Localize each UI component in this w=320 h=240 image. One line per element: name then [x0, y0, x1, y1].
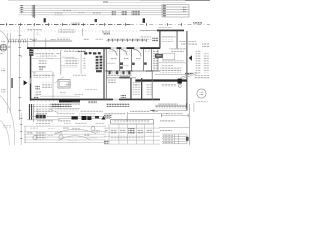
mid-bottom bold text [104, 115, 112, 118]
bottom-left small text [3, 125, 11, 127]
bottom-left vertical dim ticks [20, 118, 22, 139]
left table line r2 [24, 130, 106, 133]
horizontal line y116.2 [30, 115, 110, 118]
room faint marks rm1 [36, 56, 45, 58]
scatter text bottom mid2 [85, 133, 91, 136]
schedule row2 smudges [111, 137, 144, 140]
entrance text below wall dark [51, 103, 72, 107]
east list column 1 [196, 50, 201, 74]
partition vertical x60.7 [60, 50, 63, 75]
se arrow left end [150, 110, 154, 112]
dimension text T3b [62, 9, 71, 12]
se tick text [155, 111, 158, 113]
text rows left of dark box [140, 36, 151, 38]
partition horizontal y57 [62, 56, 75, 59]
stair hatch white slits [29, 51, 33, 54]
notes text row mid c [57, 112, 75, 114]
right wing label rows 4 [171, 51, 184, 53]
site text above building mid [58, 29, 75, 33]
sheet border top dark segment [185, 0, 210, 2]
bottom wall hatch ticks [31, 101, 58, 103]
dimension text cluster T2 dark stack [32, 5, 36, 18]
wall vertical x157.8 [157, 50, 160, 70]
grid connector vertical x45.8 [45, 38, 48, 48]
left vertical dimension line L1 [7, 33, 10, 113]
tree symbol scribble [1, 45, 7, 51]
road label text on boundary [71, 23, 79, 25]
horizontal line y118.3 [58, 117, 110, 120]
schedule vline v1 [108, 124, 111, 144]
right equipment dark box [155, 54, 163, 58]
dimension text T7 [121, 11, 127, 16]
WC room texts 3 [136, 58, 141, 60]
compass arc inner [58, 136, 90, 141]
dimension text T5 [93, 12, 101, 15]
dimension text T8 grid bubble [131, 10, 140, 16]
right room list column x153 [153, 51, 159, 71]
secondary faint setback line [0, 30, 150, 32]
notes text row mid a [55, 109, 79, 112]
right wing label rows [162, 36, 176, 38]
se text row y120 [160, 120, 175, 123]
se small table lines [162, 134, 187, 144]
room partition faint line y58.3 [32, 57, 61, 59]
grid connector vertical x27 [26, 38, 29, 48]
thin line y96 [40, 95, 80, 98]
upper dimension text streak [8, 38, 26, 40]
dark box above right wing [152, 37, 158, 42]
upper dimension ticks row [8, 40, 26, 42]
exterior wall top hatch ticks [28, 49, 158, 51]
WC door arc 1 [111, 50, 118, 57]
small circle in table mid [59, 135, 63, 139]
exterior wall top [27, 47, 160, 49]
dimension text cluster T1 [20, 5, 23, 14]
left margin text E1 [1, 40, 5, 44]
text below heavy wall [162, 84, 176, 87]
left table text above [36, 123, 50, 125]
dimension text T4 [79, 11, 85, 13]
scatter text row y122 b [75, 122, 87, 124]
hall diagonal leader [55, 77, 63, 83]
site text above building left [28, 29, 42, 31]
schedule bottom-left dark [104, 140, 108, 144]
road curve top-left [0, 31, 8, 42]
small cross on leader [37, 32, 40, 34]
east list column 2 [203, 53, 208, 72]
se line y104.9 [155, 104, 186, 107]
dimension line D4 [19, 11, 163, 14]
scatter text bottom mid4 [63, 127, 69, 129]
right notes col 3 [202, 43, 209, 48]
schedule cell dark [128, 128, 134, 133]
se small table dark mark right [186, 137, 189, 141]
bottom-left vertical dim line x21 [20, 113, 23, 145]
left list rows lower [61, 66, 78, 68]
left table row marks extra6 [90, 137, 97, 139]
bottom-right open area text [196, 101, 208, 104]
left margin text E3 [1, 88, 5, 92]
left margin text E2 [1, 68, 5, 72]
survey marker arrow A1 [44, 18, 46, 22]
schedule hline s4 [104, 139, 160, 142]
faint leader line y2 [104, 1, 186, 3]
landscape circle east [197, 89, 206, 98]
west fixtures row3 dark [34, 96, 39, 100]
entrance bold label white gaps [39, 115, 43, 118]
leader line down to building [33, 32, 36, 47]
road curve bottom-left inner [0, 121, 9, 146]
compass arc outer [54, 129, 96, 134]
se line y127.5 [159, 126, 189, 129]
corridor vertical wall A x130.8 [130, 78, 131, 99]
heavy vertical pair bottom-left [29, 104, 32, 120]
right wing label rows 2 [162, 40, 174, 42]
schedule hline s2 [104, 131, 160, 134]
schedule vline v3 [127, 124, 130, 144]
survey marker arrow A3 [143, 18, 145, 23]
gate black blob 4 [95, 116, 99, 119]
text row left lower [58, 119, 70, 121]
WC door arc 2 [121, 50, 127, 56]
WC partition P3 [142, 49, 145, 71]
east leader text [185, 72, 193, 74]
hall faint text f2 [73, 74, 86, 77]
mid-bottom line y113.2 [128, 112, 168, 115]
notes dark label nw2 [51, 104, 61, 108]
diagonal leader east 2 [182, 74, 198, 79]
corridor vertical wall B x141.4 [141, 78, 142, 99]
left table line r1 [24, 125, 106, 128]
title box frame [111, 119, 154, 124]
room faint marks rm2 [47, 57, 54, 59]
schedule hline s5 [104, 143, 160, 146]
exterior wall left [30, 47, 32, 100]
fixtures above bottom wall [121, 95, 126, 98]
dimension tick row above WC rooms [108, 39, 147, 42]
right list x153 extra rows [146, 84, 152, 96]
left table line r6 [24, 142, 106, 145]
dimension string above WC row [106, 39, 146, 42]
dark dash above canopy [103, 33, 110, 35]
right wing wall x159.8 [159, 31, 160, 49]
black arrow marker east [189, 55, 192, 60]
wall vertical x152 [151, 70, 154, 100]
text above wall T13 [84, 38, 89, 40]
schedule cell symbols row1c [120, 129, 126, 133]
dimension line D3 [19, 9, 163, 12]
boundary dark segment right [193, 22, 202, 25]
west fixtures row1 [35, 85, 40, 90]
WC door arc 3 [134, 50, 141, 57]
room text left of corridor [108, 79, 116, 83]
corridor dimension text row [106, 73, 132, 76]
WC inner text row under wall 3 [145, 51, 151, 53]
dimension line D1 [19, 5, 163, 8]
hall side label [65, 83, 71, 87]
schedule vline v5 [144, 124, 147, 144]
right wing text above partition [162, 60, 184, 62]
retaining wall text above [158, 27, 172, 29]
left table circle [33, 135, 37, 139]
left property line L3 [18, 26, 21, 120]
se tick vertical [185, 103, 188, 108]
room area label underline [39, 66, 46, 68]
notes line y108.5 [50, 107, 80, 110]
schedule cell symbols row1 [105, 128, 108, 132]
partition vertical x52.9 lower [52, 72, 55, 99]
property boundary dash-dot line [0, 23, 210, 25]
left table cell smudge c2 [36, 131, 46, 139]
right wing outer wall x186.8 [186, 31, 187, 111]
schedule vline v4 [135, 124, 138, 144]
room faint text row y54.5 [40, 54, 57, 56]
room partition stub x46.5 [45, 54, 47, 58]
interior wall x106 [105, 49, 108, 100]
west text rows upper [34, 74, 50, 78]
left table row marks extra3 [55, 132, 63, 134]
paper background [0, 0, 210, 145]
left vertical dimension line L2 [9, 33, 12, 113]
schedule cell symbols row1d [137, 129, 143, 135]
scatter text bottom mid3 [95, 130, 100, 133]
se vertical x194 [193, 103, 196, 112]
text under line left [37, 120, 53, 123]
legend table top-right frame [162, 5, 189, 18]
right wing line y74.2 [155, 73, 189, 76]
se text above [158, 103, 178, 105]
se text y129.5 [160, 129, 172, 132]
mid-bottom text above line [130, 110, 150, 113]
east side text right edge [194, 75, 209, 79]
legend table note mark [183, 8, 186, 13]
exterior wall bottom [30, 99, 160, 101]
schedule hline s1 [104, 127, 160, 130]
room label row below top wall [35, 52, 55, 55]
exterior wall left gap lightening [30, 78, 31, 84]
se dimension text above [166, 113, 183, 115]
notes rows nw4 [34, 109, 52, 112]
landscape circle inner marks [200, 92, 204, 95]
title box text [113, 121, 150, 123]
WC partition P1 [118, 49, 121, 71]
boundary cross ticks [6, 23, 182, 26]
corridor list text vertical [133, 82, 140, 96]
dark blob below wall x88 [88, 100, 97, 103]
right wing wall x176.8 [176, 31, 179, 49]
notes text row nw1 [30, 104, 51, 107]
west small text [33, 72, 37, 75]
grid leader line V1 [33, 5, 36, 18]
long vertical x189.5 [188, 104, 191, 145]
dimension line D5 [19, 14, 163, 17]
hall faint text f3 [85, 88, 97, 90]
notes text row mid b [80, 110, 103, 113]
top-right heavy retaining wall bar [157, 30, 184, 32]
schedule vline v2 [118, 124, 121, 144]
sheet border top mid segment [140, 0, 185, 2]
left text near dimension bar [8, 46, 10, 47]
hall faint text f1 [44, 75, 55, 77]
notes text nw3 [62, 104, 70, 106]
tree small marks below [0, 52, 3, 55]
corridor dimension dark ticks [109, 71, 131, 75]
scatter text row y122 a [64, 123, 71, 125]
gate black blob 3 [87, 116, 91, 120]
south wing wall thin continuation [106, 76, 136, 79]
schedule cell symbols row1e [146, 129, 152, 133]
retaining wall thin continuation left [140, 29, 157, 31]
mid-bottom dense text row a [104, 112, 125, 115]
south wing dark segment [119, 77, 129, 79]
room faint marks rm4 [122, 65, 129, 67]
left table line r4 [24, 136, 106, 139]
vertical tick line x33.5 [32, 104, 35, 122]
road curve bottom-left outer [0, 96, 15, 146]
sheet border top light segment [8, 0, 140, 2]
scatter text row y122 c [95, 122, 104, 124]
notes rows nw5 [36, 113, 47, 116]
se dense dark text band [155, 106, 186, 108]
WC room texts [110, 58, 117, 60]
mark above building corner [33, 39, 36, 41]
left table line r3 [24, 133, 106, 136]
tree symbol circle [0, 44, 7, 51]
hall faint text f4 [74, 93, 83, 95]
text above wall T11 [50, 39, 56, 41]
text above wall T12 [57, 37, 70, 40]
WC inner text row under wall [108, 51, 118, 53]
left table tick column [24, 126, 27, 143]
right wing dot marks [161, 65, 173, 67]
interior wall right vertical x104 [103, 49, 104, 100]
hall label text [60, 92, 66, 94]
corridor top wall y71 [105, 70, 160, 73]
west fixtures row2 [35, 91, 41, 96]
entrance bold label left [36, 115, 46, 119]
hall room label center [42, 83, 52, 89]
scatter text bottom mid1 [72, 128, 80, 130]
black arrow marker west entry [24, 80, 28, 85]
schedule hline s3 [104, 135, 160, 138]
text rows left of dark box 2 [141, 39, 151, 41]
left table row marks extra1 [48, 128, 55, 130]
left property line ticks [19, 35, 21, 111]
text below wall x106 row [107, 103, 130, 106]
door openings in top wall [111, 47, 140, 50]
right wing label rows 3 [169, 48, 186, 50]
schedule cell symbols row1b [111, 129, 118, 135]
gate black blob 2 [82, 116, 87, 120]
text below wall right [72, 102, 80, 105]
WC partition P4 [150, 49, 153, 71]
legend table key squares [163, 5, 166, 16]
corridor top wall dark segments [106, 71, 152, 72]
right wing lower text rows [160, 68, 181, 73]
dimension text T6 [111, 11, 115, 16]
small circle bottom mid right [91, 127, 95, 131]
south wing heavy wall [135, 79, 187, 81]
room faint line y71.2 [32, 70, 53, 72]
WC room texts 2 [124, 58, 129, 60]
exterior wall bottom door gap [113, 98, 119, 100]
leader tick mark [103, 1, 108, 2]
vertical tick line x37.9 [37, 109, 40, 116]
thin line above wall [32, 39, 72, 42]
left text tick t2 [20, 56, 22, 58]
mid-bottom vertical x127 [126, 112, 129, 122]
room label small [56, 53, 61, 55]
dimension line D2 [19, 7, 163, 9]
left table line r5 [24, 139, 106, 142]
left list rows mid [65, 58, 79, 64]
right notes col 2 [181, 43, 197, 45]
WC dimension ticks and numbers [107, 37, 145, 40]
kitchen label dark box [78, 50, 86, 53]
left table row marks extra2 [30, 128, 38, 130]
hall rug rectangle inner [60, 81, 69, 86]
WC partition P2 [130, 49, 133, 71]
text streak above wall right [95, 38, 103, 40]
stair hatch block top-left [29, 50, 33, 56]
line y119.8 short [27, 119, 60, 122]
short leader tick x82.7 [82, 29, 85, 37]
kitchen equipment top row [84, 52, 101, 54]
room area label block hall1 [38, 60, 46, 65]
left dimension arrow bar [11, 78, 12, 88]
corridor inner text [134, 84, 139, 87]
room faint marks rm3 [107, 62, 115, 64]
hall rug rectangle outer [58, 80, 70, 89]
partition vertical x81 [80, 53, 83, 74]
south wing wall pier [178, 79, 182, 84]
left table row marks extra4 [47, 135, 53, 137]
small dark mark below label [39, 69, 43, 71]
right wing partition line y62.8 [159, 62, 186, 65]
kitchen equipment twin columns [96, 56, 103, 73]
leader diagonal nw [50, 109, 58, 112]
right notes col 1 [179, 40, 196, 42]
schedule vline v6 [152, 124, 155, 144]
se dimension end ticks [161, 114, 188, 117]
left room list text column [64, 50, 79, 53]
WC fixtures [120, 62, 147, 68]
dimension text T3 [55, 13, 63, 16]
gate black triangle 5 [101, 116, 105, 119]
se dimension line y115.6 [161, 114, 189, 117]
right equipment light box [163, 53, 175, 60]
upper dimension line above building [7, 40, 72, 43]
small circle fixture [178, 84, 181, 87]
text above wall T10 [29, 38, 37, 42]
diagonal leader east 1 [180, 72, 196, 77]
se line y110.5 with arrow [150, 109, 187, 112]
left table row marks extra5 [68, 140, 77, 142]
gate black blob 1 [72, 116, 78, 119]
notes text row mid d [79, 113, 96, 115]
se small table text [163, 135, 173, 144]
exterior wall bottom thick dark segment [59, 99, 80, 102]
kitchen side text [83, 57, 85, 69]
site text above building right [102, 30, 110, 34]
left table cell smudge c1 [27, 131, 33, 133]
survey marker arrow A2 [95, 19, 97, 22]
WC inner text row under wall 2 [122, 51, 130, 53]
